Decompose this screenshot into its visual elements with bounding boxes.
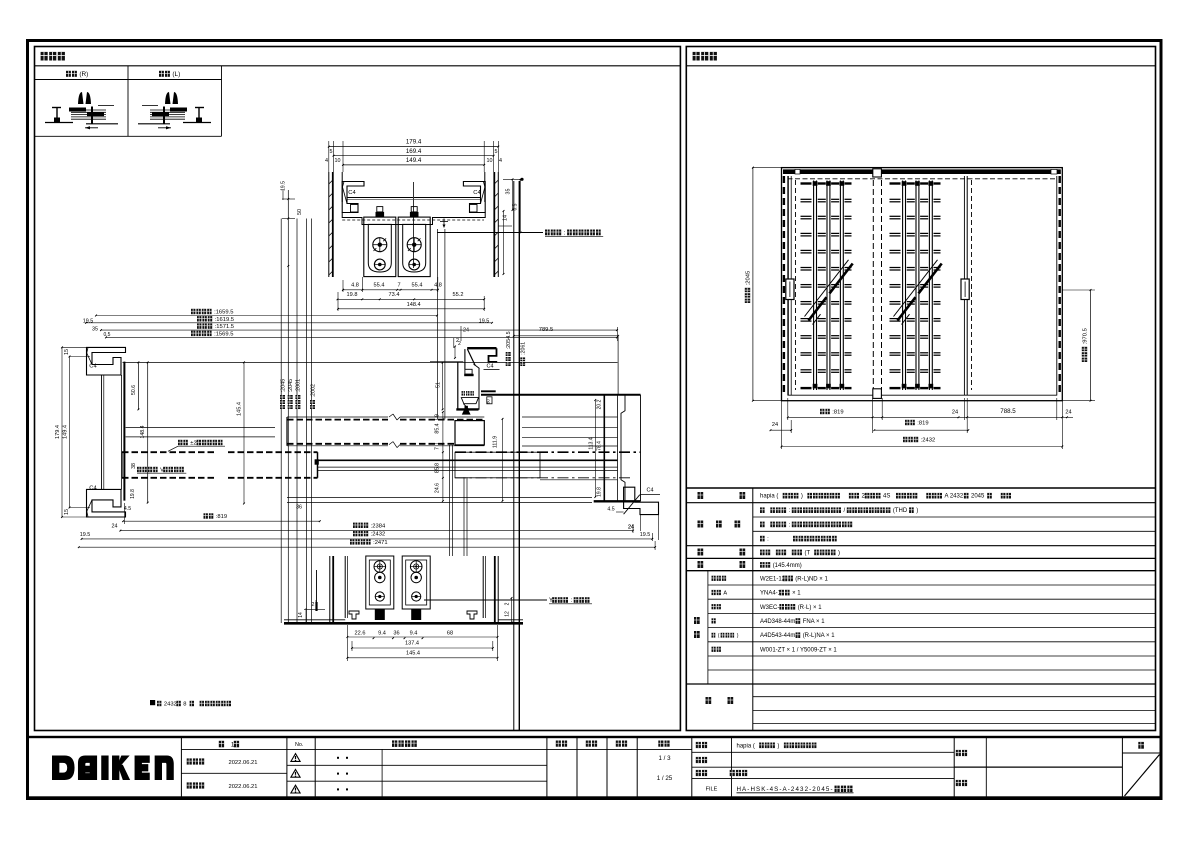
svg-text:No.: No. <box>295 742 303 748</box>
svg-text:YNA4-1: YNA4-1 <box>760 591 782 597</box>
svg-text::1569.5: :1569.5 <box>214 331 233 337</box>
svg-text:C4: C4 <box>348 190 356 196</box>
svg-text:19.5: 19.5 <box>281 181 287 191</box>
svg-text:(145.4mm): (145.4mm) <box>773 563 802 569</box>
svg-text:179.4: 179.4 <box>406 139 422 146</box>
svg-text:(: ( <box>718 633 720 639</box>
svg-text::2045: :2045 <box>280 379 286 393</box>
svg-text::: : <box>564 230 566 237</box>
svg-text:2022.06.21: 2022.06.21 <box>228 760 257 766</box>
svg-text:4: 4 <box>499 158 502 164</box>
svg-text:A4D348-44mm: A4D348-44mm <box>760 619 800 625</box>
svg-text:20.2: 20.2 <box>597 399 603 409</box>
svg-text:(R): (R) <box>79 71 88 78</box>
svg-text:35: 35 <box>92 327 98 333</box>
svg-text:55.4: 55.4 <box>412 283 423 289</box>
svg-text:C4: C4 <box>646 488 653 494</box>
svg-text:15: 15 <box>64 349 70 355</box>
svg-text:149.4: 149.4 <box>63 425 69 439</box>
svg-text:24: 24 <box>112 524 118 530</box>
svg-text:C4: C4 <box>89 364 97 370</box>
svg-text:±2: ±2 <box>190 441 196 447</box>
svg-text:2: 2 <box>505 602 511 605</box>
svg-text::819: :819 <box>832 410 843 416</box>
svg-text:179.4: 179.4 <box>55 425 61 439</box>
svg-text:789.5: 789.5 <box>539 327 554 333</box>
svg-text:19.8: 19.8 <box>130 489 136 499</box>
svg-text:): ) <box>737 633 739 639</box>
svg-text:4.8: 4.8 <box>351 283 359 289</box>
svg-text::1571.5: :1571.5 <box>215 324 234 330</box>
svg-text:788.5: 788.5 <box>1000 408 1016 415</box>
svg-text:24: 24 <box>1065 410 1071 416</box>
svg-text:113.4: 113.4 <box>588 437 594 449</box>
svg-text:W2E1-12: W2E1-12 <box>760 576 786 582</box>
svg-text:2432: 2432 <box>164 702 177 708</box>
svg-text:2022.06.21: 2022.06.21 <box>228 784 257 790</box>
svg-text:): ) <box>801 494 803 500</box>
svg-text:2045: 2045 <box>971 494 985 500</box>
svg-text::1619.5: :1619.5 <box>215 317 234 323</box>
svg-text:36: 36 <box>393 631 399 637</box>
svg-text:24: 24 <box>463 328 469 334</box>
svg-text:FNA × 1: FNA × 1 <box>803 619 826 625</box>
svg-text:2: 2 <box>458 341 461 347</box>
svg-text:1 / 3: 1 / 3 <box>658 755 671 762</box>
svg-text:24: 24 <box>772 422 778 428</box>
svg-text:4S: 4S <box>883 494 890 500</box>
svg-text:78.4: 78.4 <box>597 441 603 451</box>
svg-text:10: 10 <box>487 158 493 164</box>
svg-text::819: :819 <box>917 421 928 427</box>
svg-text:8: 8 <box>183 702 186 708</box>
svg-text::970.5: :970.5 <box>1083 328 1089 344</box>
svg-text:(R-L)ND × 1: (R-L)ND × 1 <box>795 576 828 582</box>
svg-text::2054.5: :2054.5 <box>506 331 512 349</box>
svg-text:7: 7 <box>435 447 441 450</box>
svg-text:9.4: 9.4 <box>378 631 386 637</box>
svg-text:HA-HSK-4S-A-2432-2045-: HA-HSK-4S-A-2432-2045- <box>737 786 833 793</box>
svg-text:1 / 25: 1 / 25 <box>657 775 673 782</box>
svg-text:169.4: 169.4 <box>406 148 422 155</box>
svg-text:149.4: 149.4 <box>406 157 422 164</box>
svg-text:0.5: 0.5 <box>104 332 111 338</box>
svg-text:24.6: 24.6 <box>435 483 441 493</box>
svg-text:85.4: 85.4 <box>435 423 441 433</box>
svg-text:/: / <box>844 508 846 514</box>
svg-text:9.4: 9.4 <box>410 631 418 637</box>
svg-text:38: 38 <box>131 463 137 469</box>
svg-text:68: 68 <box>447 631 453 637</box>
svg-text::2045: :2045 <box>288 379 294 393</box>
svg-text:(R·L) × 1: (R·L) × 1 <box>798 605 823 611</box>
svg-text:(R-L)NA × 1: (R-L)NA × 1 <box>803 633 836 639</box>
svg-text:(T: (T <box>805 550 811 556</box>
svg-text:): ) <box>916 508 918 514</box>
svg-text:C4: C4 <box>486 364 493 370</box>
svg-text:12: 12 <box>505 611 511 617</box>
svg-text::: : <box>767 537 769 543</box>
svg-text::2471: :2471 <box>373 540 388 546</box>
svg-text:111.9: 111.9 <box>492 436 498 448</box>
svg-text::1659.5: :1659.5 <box>214 310 233 316</box>
svg-text::: : <box>571 598 573 604</box>
svg-text:5: 5 <box>495 149 498 155</box>
svg-text:W001-ZT × 1 / Y5009-ZT × 1: W001-ZT × 1 / Y5009-ZT × 1 <box>760 647 837 653</box>
svg-text:hapia (: hapia ( <box>760 494 778 500</box>
svg-text:24: 24 <box>952 410 958 416</box>
svg-text:): ) <box>838 550 840 556</box>
svg-text:A: A <box>723 590 727 596</box>
svg-text:hapia (: hapia ( <box>737 743 755 749</box>
svg-text:FILE: FILE <box>706 787 718 793</box>
svg-text:145.4: 145.4 <box>237 402 243 416</box>
svg-text:51: 51 <box>436 382 442 388</box>
svg-text:4.5: 4.5 <box>607 507 614 513</box>
svg-text:35: 35 <box>506 189 512 195</box>
svg-text:85.8: 85.8 <box>435 463 441 473</box>
svg-text:50.6: 50.6 <box>131 385 137 395</box>
svg-text:19.5: 19.5 <box>479 319 490 325</box>
svg-text:80: 80 <box>485 399 490 404</box>
svg-text::2045: :2045 <box>746 271 752 286</box>
svg-text:55.4: 55.4 <box>374 283 385 289</box>
svg-text:7: 7 <box>397 283 400 289</box>
svg-text:22.6: 22.6 <box>355 631 366 637</box>
svg-text:19.5: 19.5 <box>640 532 651 538</box>
svg-text:19.5: 19.5 <box>80 532 91 538</box>
svg-text:4: 4 <box>325 158 328 164</box>
svg-text:36: 36 <box>296 505 302 511</box>
svg-text:A 2432: A 2432 <box>945 494 964 500</box>
svg-text:2: 2 <box>312 602 315 608</box>
svg-text:14: 14 <box>298 612 304 618</box>
svg-text::819: :819 <box>216 514 227 520</box>
svg-text:148.4: 148.4 <box>140 425 146 438</box>
svg-text::2002: :2002 <box>310 384 316 398</box>
svg-text:55.2: 55.2 <box>453 292 464 298</box>
svg-text::: : <box>789 522 791 528</box>
svg-text::2432: :2432 <box>921 438 936 444</box>
svg-text:4.5: 4.5 <box>124 506 131 512</box>
svg-text::: : <box>789 508 791 514</box>
svg-text:148.4: 148.4 <box>407 302 421 308</box>
svg-text:50: 50 <box>297 209 303 215</box>
svg-text:19.8: 19.8 <box>347 292 358 298</box>
svg-text:137.4: 137.4 <box>405 641 419 647</box>
svg-text:C4: C4 <box>89 486 97 492</box>
svg-text:73.4: 73.4 <box>389 292 400 298</box>
svg-text:145.4: 145.4 <box>406 651 420 657</box>
svg-text:15: 15 <box>64 509 70 515</box>
svg-text::2432: :2432 <box>371 532 386 538</box>
svg-text:19.5: 19.5 <box>83 319 94 325</box>
svg-text:19.8: 19.8 <box>597 487 603 497</box>
svg-text:A4D543-44mm: A4D543-44mm <box>760 633 800 639</box>
svg-text::2384: :2384 <box>371 523 386 529</box>
svg-text::2061: :2061 <box>521 342 527 355</box>
svg-text:5: 5 <box>330 149 333 155</box>
svg-text:× 1: × 1 <box>792 591 801 597</box>
svg-text:): ) <box>777 743 779 749</box>
svg-text:(L): (L) <box>172 71 180 78</box>
svg-text:C4: C4 <box>473 190 481 196</box>
svg-text:(THD: (THD <box>893 508 908 514</box>
svg-text:10: 10 <box>335 158 341 164</box>
svg-text::2001: :2001 <box>296 379 302 393</box>
